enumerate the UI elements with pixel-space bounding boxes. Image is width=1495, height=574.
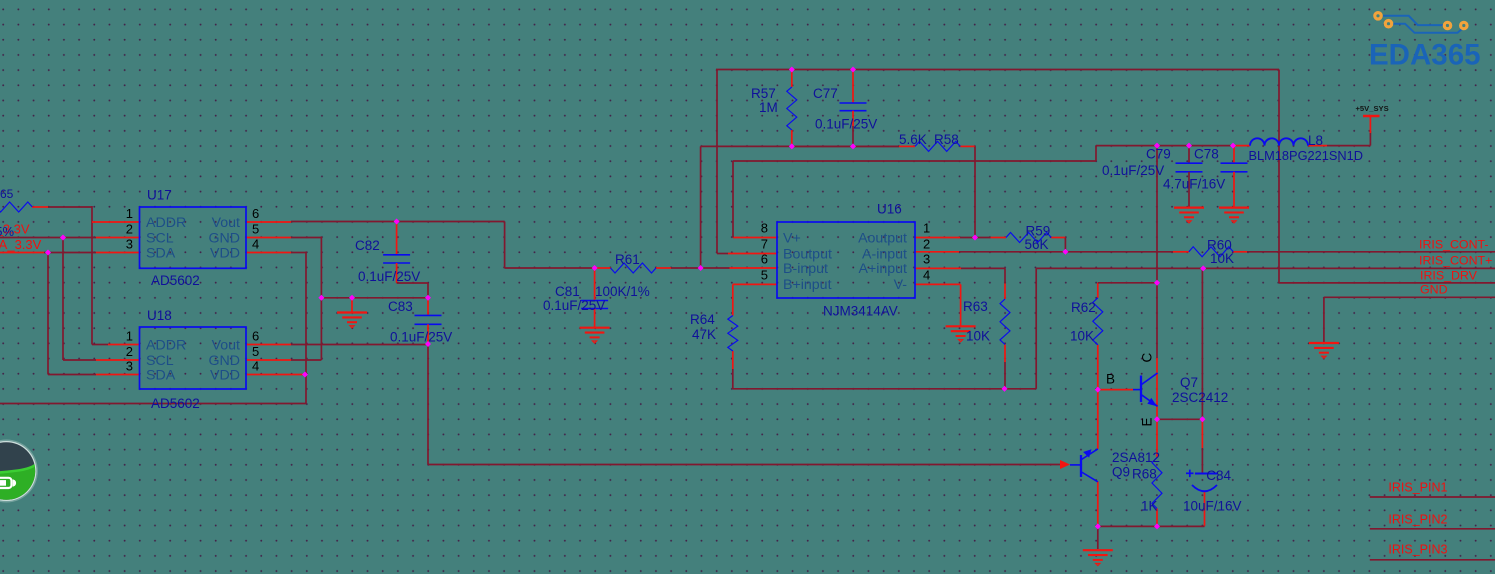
svg-text:IRIS_PIN1: IRIS_PIN1: [1388, 481, 1447, 495]
svg-text:B-input: B-input: [783, 261, 828, 277]
svg-text:Q7: Q7: [1180, 375, 1198, 390]
svg-text:U17: U17: [147, 188, 172, 203]
svg-text:IRIS_CONT+: IRIS_CONT+: [1419, 254, 1492, 268]
svg-text:C84: C84: [1206, 468, 1231, 483]
svg-text:C83: C83: [388, 299, 413, 314]
svg-text:0.1uF/25V: 0.1uF/25V: [815, 117, 877, 132]
svg-text:B: B: [1106, 372, 1115, 387]
svg-text:2: 2: [126, 222, 133, 237]
svg-text:E: E: [1140, 417, 1155, 426]
svg-text:VDD: VDD: [210, 367, 240, 383]
svg-text:C82: C82: [355, 238, 380, 253]
svg-text:IRIS_PIN2: IRIS_PIN2: [1388, 512, 1447, 526]
svg-text:NJM3414AV: NJM3414AV: [823, 304, 898, 319]
svg-text:65: 65: [0, 187, 14, 201]
svg-text:7: 7: [761, 237, 768, 252]
svg-text:10K: 10K: [1070, 329, 1094, 344]
svg-text:C78: C78: [1194, 147, 1219, 162]
svg-text:C79: C79: [1146, 147, 1171, 162]
svg-text:8: 8: [761, 221, 768, 236]
svg-text:GND: GND: [1420, 283, 1448, 297]
svg-text:1K: 1K: [1141, 499, 1158, 514]
svg-text:1: 1: [126, 329, 133, 344]
svg-text:AD5602: AD5602: [151, 396, 200, 411]
svg-text:ADDR: ADDR: [146, 215, 186, 231]
svg-text:BLM18PG221SN1D: BLM18PG221SN1D: [1249, 148, 1364, 163]
svg-text:0.1uF/25V: 0.1uF/25V: [543, 298, 605, 313]
svg-text:0.1uF/25V: 0.1uF/25V: [390, 330, 452, 345]
svg-text:Q9: Q9: [1112, 465, 1130, 480]
svg-text:R63: R63: [963, 299, 988, 314]
svg-text:2: 2: [126, 344, 133, 359]
svg-text:2SC2412: 2SC2412: [1172, 390, 1228, 405]
svg-text:IRIS_PIN3: IRIS_PIN3: [1388, 542, 1447, 556]
svg-text:10uF/16V: 10uF/16V: [1183, 499, 1242, 514]
svg-text:5.6K: 5.6K: [899, 132, 927, 147]
svg-text:6: 6: [252, 206, 259, 221]
svg-text:EDA365: EDA365: [1369, 39, 1481, 72]
svg-text:4: 4: [252, 237, 259, 252]
svg-text:V-: V-: [894, 277, 908, 293]
svg-text:4: 4: [252, 359, 259, 374]
svg-text:SDA: SDA: [146, 367, 176, 383]
svg-text:R64: R64: [690, 312, 715, 327]
svg-text:A-input: A-input: [862, 246, 907, 262]
svg-text:R62: R62: [1071, 300, 1096, 315]
svg-text:2SA812: 2SA812: [1112, 450, 1160, 465]
svg-text:V+: V+: [783, 230, 801, 246]
svg-text:AD5602: AD5602: [151, 273, 200, 288]
svg-text:SCL: SCL: [146, 230, 174, 246]
svg-text:GND: GND: [208, 230, 240, 246]
svg-text:C81: C81: [555, 284, 580, 299]
svg-text:4: 4: [923, 267, 930, 282]
svg-text:R57: R57: [751, 86, 776, 101]
svg-text:3: 3: [126, 359, 133, 374]
svg-text:C: C: [1140, 353, 1155, 363]
svg-text:SDA: SDA: [146, 245, 176, 261]
svg-text:3: 3: [126, 237, 133, 252]
svg-text:5: 5: [761, 267, 768, 282]
svg-text:Aoutput: Aoutput: [858, 230, 907, 246]
svg-text:A+input: A+input: [858, 261, 907, 277]
svg-text:3: 3: [923, 251, 930, 266]
svg-text:R68: R68: [1132, 467, 1157, 482]
svg-text:SDA_3.3V: SDA_3.3V: [0, 237, 42, 252]
svg-text:0.1uF/25V: 0.1uF/25V: [1102, 163, 1164, 178]
svg-text:1M: 1M: [759, 100, 778, 115]
svg-text:U16: U16: [877, 202, 902, 217]
svg-text:1: 1: [126, 206, 133, 221]
svg-text:B+input: B+input: [783, 277, 832, 293]
svg-text:Vout: Vout: [212, 337, 240, 353]
svg-text:10K: 10K: [1210, 251, 1234, 266]
svg-text:1: 1: [923, 221, 930, 236]
svg-text:IRIS_DRV: IRIS_DRV: [1420, 269, 1478, 283]
svg-text:6: 6: [252, 329, 259, 344]
svg-text:0.1uF/25V: 0.1uF/25V: [358, 269, 420, 284]
svg-text:47K: 47K: [692, 327, 716, 342]
svg-text:6: 6: [761, 251, 768, 266]
svg-text:ADDR: ADDR: [146, 337, 186, 353]
svg-text:4.7uF/16V: 4.7uF/16V: [1163, 177, 1225, 192]
svg-text:R61: R61: [615, 252, 640, 267]
svg-text:+5V_SYS: +5V_SYS: [1356, 104, 1389, 113]
svg-text:L8: L8: [1308, 133, 1323, 148]
svg-text:10K: 10K: [966, 329, 990, 344]
svg-text:U18: U18: [147, 308, 172, 323]
svg-text:100K/1%: 100K/1%: [595, 284, 650, 299]
svg-text:Vout: Vout: [212, 215, 240, 231]
svg-text:5: 5: [252, 344, 259, 359]
svg-text:Boutput: Boutput: [783, 246, 832, 262]
svg-text:C77: C77: [813, 86, 838, 101]
svg-text:5: 5: [252, 222, 259, 237]
svg-text:IRIS_CONT-: IRIS_CONT-: [1419, 238, 1489, 252]
svg-text:VDD: VDD: [210, 245, 240, 261]
svg-text:2: 2: [923, 237, 930, 252]
svg-text:R58: R58: [934, 132, 959, 147]
svg-text:56K: 56K: [1025, 237, 1049, 252]
